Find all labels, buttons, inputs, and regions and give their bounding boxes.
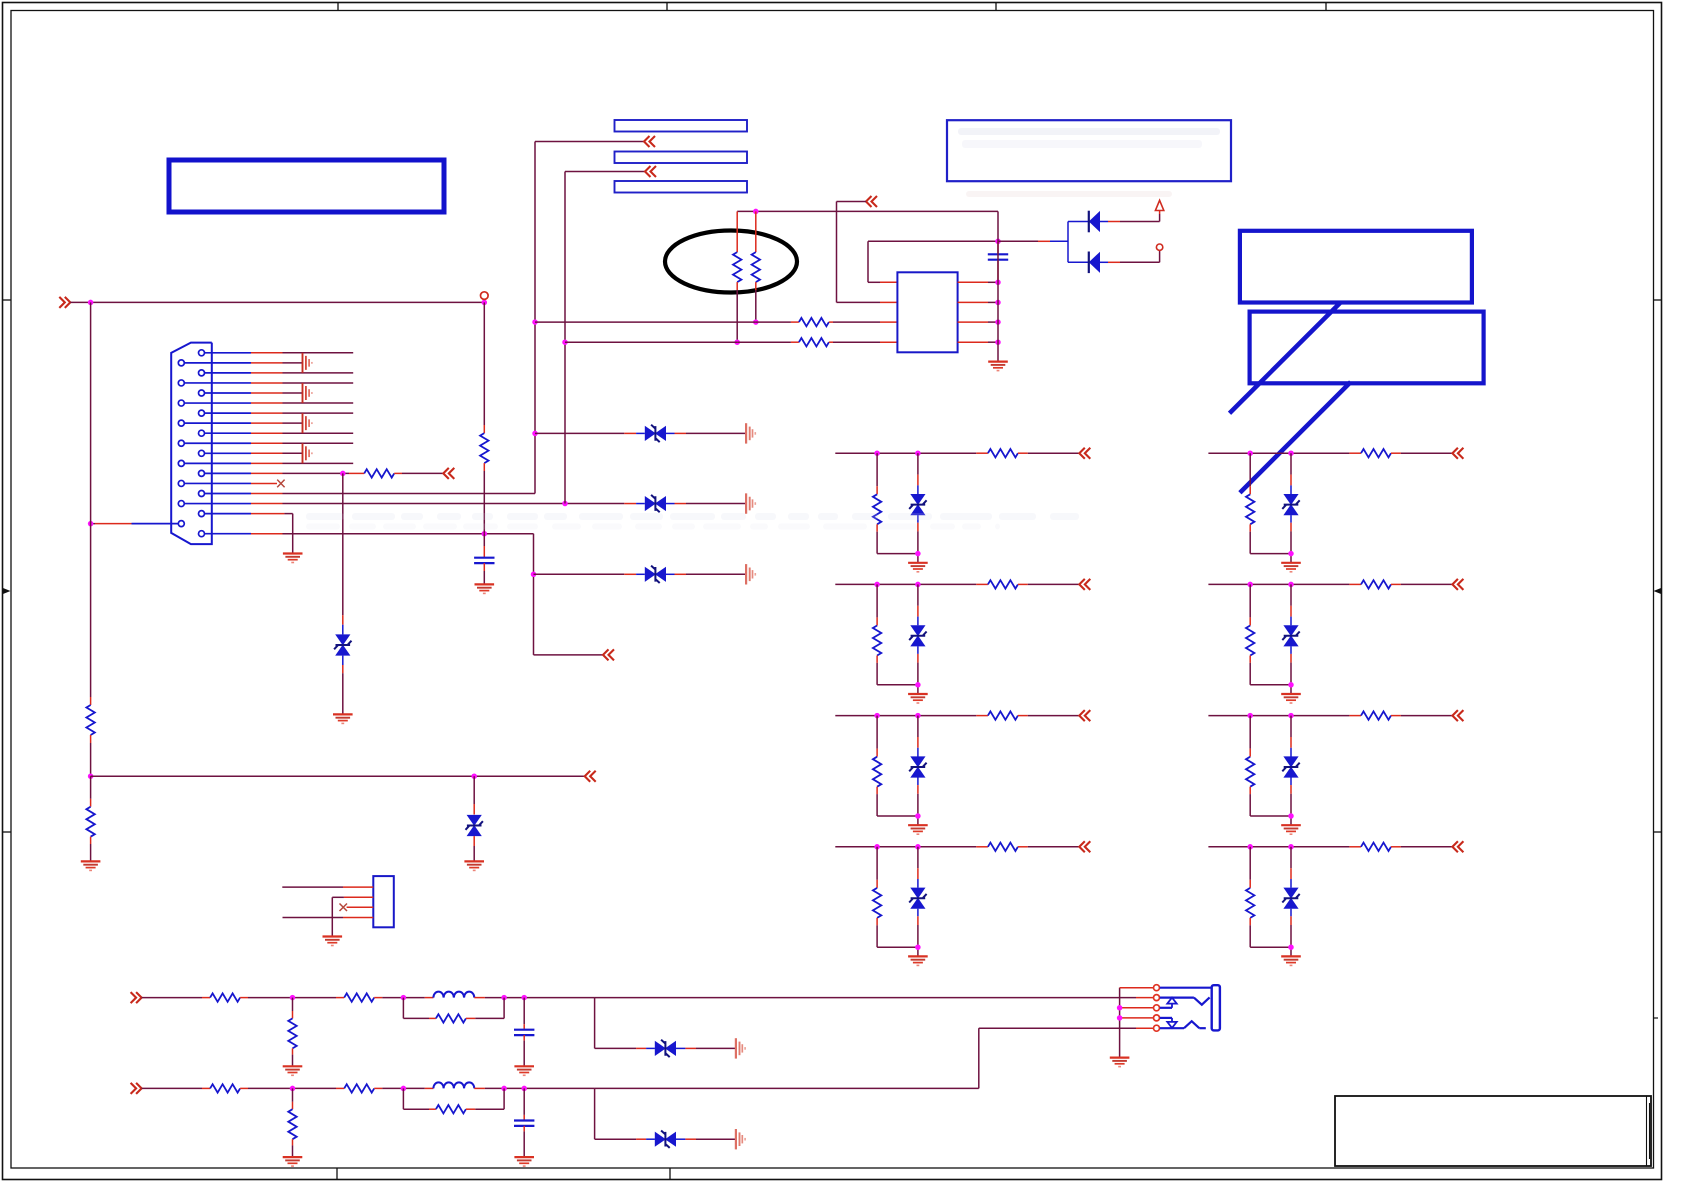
IC U1 xyxy=(897,272,957,352)
wire D2 to ground xyxy=(473,836,475,861)
pin 2 of J1 xyxy=(178,360,251,366)
wire cell4 TVS branch xyxy=(917,847,919,888)
junction xyxy=(1247,844,1253,850)
resistor R cell5 series xyxy=(1361,449,1391,457)
wire J1 pin12 signal xyxy=(251,462,353,464)
off-page connector OP5 xyxy=(585,771,596,782)
junction xyxy=(874,450,880,456)
off-page connector OP3 xyxy=(866,196,877,207)
wire cell1 TVS branch xyxy=(917,453,919,494)
wire R3 to ground xyxy=(90,837,92,862)
wire J1 pin6 signal xyxy=(251,402,353,404)
wire D5 to chassis xyxy=(666,573,746,575)
diode D6 xyxy=(1089,211,1100,233)
label box upper-right xyxy=(947,120,1231,181)
resistor R3 xyxy=(86,807,94,837)
wire cell3 TVS branch xyxy=(917,716,919,757)
resistor chain2 R-mid xyxy=(344,1084,374,1092)
junction xyxy=(1117,1005,1123,1011)
junction xyxy=(995,339,1001,345)
wire net N776 xyxy=(91,775,585,777)
junction xyxy=(501,1086,507,1092)
wire cell1 resistor branch xyxy=(876,453,878,494)
junction xyxy=(1288,844,1294,850)
junction xyxy=(521,1086,527,1092)
pin 16 of J1 xyxy=(178,501,251,507)
wire J2 pin2 to ground xyxy=(332,897,373,936)
wire cell4 resistor branch xyxy=(876,847,878,888)
junction xyxy=(995,300,1001,306)
pin 13 of J1 xyxy=(199,470,252,476)
TVS diode cell2 xyxy=(909,625,926,646)
TVS diode chain1 xyxy=(655,1040,676,1057)
resistor R cell8 shunt xyxy=(1246,888,1254,918)
wire cell8 to off-page xyxy=(1391,846,1452,848)
junction xyxy=(532,319,538,325)
wire cell6 TVS branch xyxy=(1290,584,1292,625)
junction xyxy=(88,521,94,527)
resistor R7 xyxy=(799,338,829,346)
resistor chain1 R-mid xyxy=(344,993,374,1001)
pin 14 of J1 xyxy=(178,480,251,486)
wire cell2 top xyxy=(835,583,988,585)
wire R3 branch xyxy=(90,776,92,807)
port circle xyxy=(1156,244,1162,250)
capacitor C1 xyxy=(988,241,1008,282)
wire J1 pin8 shield drain xyxy=(251,422,303,424)
resistor chain1 R-parallel xyxy=(436,1014,466,1022)
wire chain1 diode to chassis xyxy=(676,1047,736,1049)
junction xyxy=(915,682,921,688)
junction xyxy=(915,844,921,850)
resistor R1 xyxy=(364,469,394,477)
wire J2 pin4 xyxy=(283,917,374,919)
wire chain1 diode branch xyxy=(595,998,655,1049)
wire cell5 top xyxy=(1208,452,1361,454)
wire J2 pin1 xyxy=(282,886,373,888)
wire chain2 bypass right xyxy=(466,1088,504,1109)
off-page connector cell8 xyxy=(1452,841,1463,852)
junction xyxy=(753,209,759,215)
wire net N322 xyxy=(535,321,799,323)
junction xyxy=(1288,944,1294,950)
off-page connector chain2 xyxy=(131,1083,142,1094)
port arrow xyxy=(1155,200,1163,210)
shield symbol 3 xyxy=(303,413,312,433)
wire chain2 seg3 xyxy=(374,1087,433,1089)
shield symbol 2 xyxy=(303,383,312,403)
connector J1 DB19 body xyxy=(171,343,212,544)
junction xyxy=(1288,713,1294,719)
wire cell8 top xyxy=(1208,846,1361,848)
junction xyxy=(1247,582,1253,588)
pin 6 of J1 xyxy=(178,400,251,406)
pin 1 of J3 xyxy=(1154,985,1160,991)
chassis ground xyxy=(736,1129,745,1149)
wire chain2 cap branch xyxy=(523,1088,525,1120)
junction xyxy=(521,995,527,1001)
inductor chain2 L xyxy=(433,1082,474,1088)
wire chain2 seg4 xyxy=(474,1087,594,1089)
ground xyxy=(464,861,484,870)
resistor chain1 R-shunt branch xyxy=(288,998,296,1067)
wire jack pin5 stub xyxy=(1136,1027,1153,1029)
wire net N211 xyxy=(737,210,998,212)
ghost text row xyxy=(966,191,1172,197)
wire cell7 to off-page xyxy=(1391,715,1452,717)
TVS diode cell5 xyxy=(1282,494,1299,515)
wire D4 to chassis xyxy=(666,503,746,505)
shield symbol 1 xyxy=(303,353,312,373)
TVS diode cell4 xyxy=(909,888,926,909)
junction xyxy=(88,300,94,306)
wire J2 pin3 stub xyxy=(347,906,374,908)
ground xyxy=(283,554,303,563)
wire J1 pin2 shield drain xyxy=(251,362,303,364)
wire cell2 to off-page xyxy=(1018,583,1079,585)
off-page connector cell3 xyxy=(1079,710,1090,721)
pin 18 of J1 xyxy=(132,521,185,527)
wire cell6 to off-page xyxy=(1391,583,1452,585)
resistor R cell2 series xyxy=(988,580,1018,588)
wire J1 pin15 to riser A xyxy=(251,493,535,495)
wire J1 pin11 shield drain xyxy=(251,452,303,454)
wire cell2 TVS branch xyxy=(917,584,919,625)
wire chain2 output xyxy=(595,1028,1136,1088)
wire R1 to off-page xyxy=(394,472,443,474)
wire riser B xyxy=(565,172,645,504)
pin 11 of J1 xyxy=(199,450,252,456)
wire J1 pin10 signal xyxy=(251,442,353,444)
off-page connector cell7 xyxy=(1452,710,1463,721)
wire cell5 resistor to rail xyxy=(1250,524,1291,553)
TVS diode D4 xyxy=(645,495,666,512)
pin 3 of J1 xyxy=(199,370,252,376)
wire J1 pin13 net xyxy=(251,472,364,474)
wire riser R4 xyxy=(483,302,485,433)
pin 12 of J1 xyxy=(178,460,251,466)
wire U1 right pin 1 xyxy=(958,281,998,283)
wire J1 pin9 signal xyxy=(251,432,353,434)
wire net N302 xyxy=(70,301,484,303)
TVS diode cell6 xyxy=(1282,625,1299,646)
junction xyxy=(1117,1015,1123,1021)
pin 15 of J1 xyxy=(199,491,252,497)
pin 5 of J1 xyxy=(199,390,252,396)
wire cap C2 branch xyxy=(483,534,485,558)
resistor RA in ellipse xyxy=(733,211,741,342)
junction xyxy=(501,995,507,1001)
junction xyxy=(915,551,921,557)
chassis ground xyxy=(746,423,755,443)
resistor R cell7 shunt xyxy=(1246,757,1254,787)
connector J3 jack body xyxy=(1160,985,1220,1030)
wire jack pin2 stub xyxy=(1136,997,1153,999)
wire cell3 resistor to rail xyxy=(877,787,918,816)
ground xyxy=(908,825,928,834)
junction xyxy=(532,431,538,437)
wire cell8 resistor branch xyxy=(1249,847,1251,888)
junction xyxy=(915,450,921,456)
TVS diode D5 xyxy=(645,566,666,583)
junction xyxy=(1247,450,1253,456)
ground xyxy=(81,861,101,870)
off-page connector cell6 xyxy=(1452,579,1463,590)
junction xyxy=(915,813,921,819)
ground xyxy=(908,563,928,572)
wire C2 to ground xyxy=(483,563,485,584)
wire cell7 resistor to rail xyxy=(1250,787,1291,816)
junction xyxy=(88,773,94,779)
ground xyxy=(988,362,1008,371)
resistor R cell7 series xyxy=(1361,711,1391,719)
TVS diode D2 xyxy=(466,815,483,836)
wire chain1 seg3 xyxy=(374,997,433,999)
wire chain1 cap branch xyxy=(523,998,525,1030)
wire chain2 diode branch xyxy=(595,1088,655,1139)
wire J1 pin5 shield drain xyxy=(251,392,303,394)
wire D3 to chassis xyxy=(666,432,746,434)
label bar 3 xyxy=(615,181,748,193)
resistor R cell1 shunt xyxy=(873,494,881,524)
ground xyxy=(283,1066,303,1075)
wire cell8 TVS to ground xyxy=(1290,909,1292,957)
junction xyxy=(1288,582,1294,588)
wire J1 pin1 signal xyxy=(251,352,353,354)
wire cell3 to off-page xyxy=(1018,715,1079,717)
chassis ground xyxy=(746,564,755,584)
wire cell2 resistor branch xyxy=(876,584,878,625)
wire net N342 xyxy=(565,341,799,343)
wire cell7 top xyxy=(1208,715,1361,717)
junction xyxy=(753,319,759,325)
TVS diode D1 xyxy=(334,634,351,655)
pin 1 of J1 xyxy=(199,350,252,356)
junction xyxy=(874,582,880,588)
wire cell3 resistor branch xyxy=(876,716,878,757)
wire TVS D3 row xyxy=(535,432,645,434)
ground xyxy=(283,1157,303,1166)
no-connect X xyxy=(340,904,348,912)
wire J1 pin14 stub xyxy=(251,482,277,484)
pin 4 of J3 xyxy=(1154,1015,1160,1021)
wire diode pair stem xyxy=(1068,222,1089,263)
off-page connector OP6 xyxy=(644,136,655,147)
TVS diode cell3 xyxy=(909,756,926,777)
wire cell7 resistor branch xyxy=(1249,716,1251,757)
wire cell6 resistor branch xyxy=(1249,584,1251,625)
capacitor chain2 xyxy=(514,1121,534,1126)
resistor R cell4 series xyxy=(988,843,1018,851)
ground xyxy=(1110,1058,1130,1067)
wire riser left xyxy=(90,302,92,705)
wire D6 to port xyxy=(1100,211,1160,222)
wire cell6 top xyxy=(1208,583,1361,585)
ground xyxy=(908,694,928,703)
strike line 2 xyxy=(1240,382,1351,493)
resistor chain1 R-in xyxy=(210,993,240,1001)
junction xyxy=(915,582,921,588)
junction xyxy=(1288,813,1294,819)
wire TVS D2 branch xyxy=(473,776,475,814)
wire TVS D5 row xyxy=(534,573,645,575)
wire cell8 TVS branch xyxy=(1290,847,1292,888)
shield symbol 4 xyxy=(303,443,312,463)
wire cap loop xyxy=(868,241,998,282)
wire J1 pin18 to riser xyxy=(91,523,132,525)
pin 5 of J3 xyxy=(1154,1025,1160,1031)
wire J1 pin19 net xyxy=(251,534,603,655)
wire cell6 resistor to rail xyxy=(1250,656,1291,685)
junction xyxy=(1288,682,1294,688)
capacitor chain1 xyxy=(514,1030,534,1035)
junction xyxy=(995,319,1001,325)
resistor chain2 R-parallel xyxy=(436,1105,466,1113)
junction xyxy=(401,1086,407,1092)
wire J1 pin4 signal xyxy=(251,382,353,384)
wire cell5 TVS branch xyxy=(1290,453,1292,494)
wire cell1 top xyxy=(835,452,988,454)
resistor chain2 R-in xyxy=(210,1084,240,1092)
junction xyxy=(531,572,537,578)
junction xyxy=(401,995,407,1001)
off-page connector OP4 xyxy=(603,649,614,660)
wire riser A xyxy=(535,142,644,494)
label bar 1 xyxy=(615,120,748,132)
junction xyxy=(915,944,921,950)
ground xyxy=(323,937,343,946)
wire J1 pin3 signal xyxy=(251,372,353,374)
off-page connector IN1 xyxy=(59,297,70,308)
wire J1 pin16 net xyxy=(251,503,645,505)
pin 4 of J1 xyxy=(178,380,251,386)
wire J1 pin7 signal xyxy=(251,412,353,414)
wire cell4 TVS to ground xyxy=(917,909,919,957)
ground xyxy=(1281,956,1301,965)
resistor R cell4 shunt xyxy=(873,888,881,918)
connector J3 jack ground riser xyxy=(1120,988,1154,1058)
junction xyxy=(995,239,1001,245)
pin 2 of J3 xyxy=(1154,995,1160,1001)
junction xyxy=(874,844,880,850)
junction xyxy=(471,773,477,779)
junction xyxy=(1247,713,1253,719)
junction xyxy=(340,471,346,477)
wire cell4 resistor to rail xyxy=(877,918,918,947)
junction xyxy=(874,713,880,719)
pin 3 of J3 xyxy=(1154,1005,1160,1011)
ground xyxy=(514,1066,534,1075)
label bar 2 xyxy=(615,152,748,164)
junction xyxy=(482,300,488,306)
wire chain1 bypass loop xyxy=(403,998,436,1019)
wire chain2 bypass loop xyxy=(403,1088,436,1109)
TVS diode chain2 xyxy=(655,1131,676,1148)
wire cell6 TVS to ground xyxy=(1290,646,1292,694)
label box title upper-left xyxy=(169,160,444,212)
wire cell1 TVS to ground xyxy=(917,515,919,563)
junction xyxy=(915,713,921,719)
wire riser U1 right xyxy=(997,241,999,361)
wire net N211 drop xyxy=(997,211,999,241)
ground xyxy=(1281,694,1301,703)
resistor R cell1 series xyxy=(988,449,1018,457)
TVS diode cell1 xyxy=(909,494,926,515)
wire cell4 top xyxy=(835,846,988,848)
pin 8 of J1 xyxy=(178,420,251,426)
wire cell7 TVS to ground xyxy=(1290,778,1292,826)
wire cell2 TVS to ground xyxy=(917,646,919,694)
wire cell4 to off-page xyxy=(1018,846,1079,848)
resistor R4 xyxy=(480,433,488,463)
off-page connector chain1 xyxy=(131,992,142,1003)
ground xyxy=(475,584,495,593)
wire chain1 output xyxy=(595,997,1136,999)
off-page connector cell5 xyxy=(1452,448,1463,459)
pin 10 of J1 xyxy=(178,440,251,446)
pin 17 of J1 xyxy=(199,511,252,517)
wire chain2 seg2 xyxy=(240,1087,344,1089)
wire U1 right pin 2 xyxy=(958,301,998,303)
pin 9 of J1 xyxy=(199,430,252,436)
wire TVS D1 branch xyxy=(342,473,344,634)
wire cell5 to off-page xyxy=(1391,452,1452,454)
resistor RB in ellipse xyxy=(752,211,760,322)
strike line 1 xyxy=(1230,303,1341,413)
wire J1 pin17 to ground xyxy=(251,514,293,554)
junction xyxy=(562,339,568,345)
wire cell3 top xyxy=(835,715,988,717)
connector J2 body xyxy=(373,876,394,927)
ground xyxy=(333,714,353,723)
wire U1 right pin 3 xyxy=(958,321,998,323)
highlight ellipse xyxy=(665,231,797,293)
junction xyxy=(562,501,568,507)
wire R6 to U1 xyxy=(829,321,898,323)
resistor R cell6 shunt xyxy=(1246,626,1254,656)
off-page connector OP1 xyxy=(443,468,454,479)
junction xyxy=(995,280,1001,286)
ghost text row xyxy=(958,128,1220,148)
wire chain2 cap to ground xyxy=(523,1126,525,1157)
chassis ground xyxy=(736,1038,745,1058)
junction xyxy=(482,531,488,537)
resistor R cell5 shunt xyxy=(1246,494,1254,524)
ground xyxy=(908,956,928,965)
TVS diode D3 xyxy=(645,425,666,442)
ground xyxy=(514,1157,534,1166)
wire cell3 TVS to ground xyxy=(917,778,919,826)
off-page connector cell4 xyxy=(1079,841,1090,852)
junction xyxy=(1288,450,1294,456)
junction xyxy=(734,339,740,345)
wire cell8 resistor to rail xyxy=(1250,918,1291,947)
wire cell7 TVS branch xyxy=(1290,716,1292,757)
resistor R cell6 series xyxy=(1361,580,1391,588)
pin 7 of J1 xyxy=(199,410,252,416)
wire cell1 resistor to rail xyxy=(877,524,918,553)
wire chain1 seg2 xyxy=(240,997,344,999)
pin 19 of J1 xyxy=(199,531,252,537)
wire cell1 to off-page xyxy=(1018,452,1079,454)
wire D7 to port xyxy=(1100,250,1160,262)
wire cell5 resistor branch xyxy=(1249,453,1251,494)
label box right A xyxy=(1240,231,1472,303)
wire chain1 seg1 xyxy=(142,997,211,999)
junction xyxy=(1288,551,1294,557)
resistor R2 xyxy=(86,705,94,735)
TVS diode cell8 xyxy=(1282,888,1299,909)
